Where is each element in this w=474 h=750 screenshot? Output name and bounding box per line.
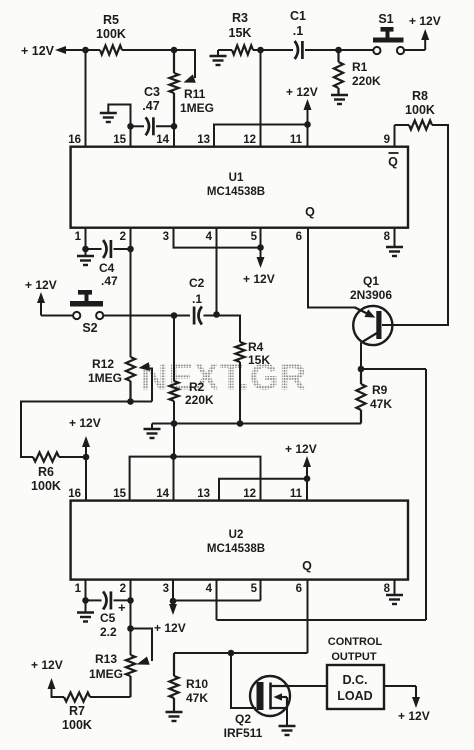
label R6 [38,465,54,479]
wire pin2 U1 down [130,228,132,357]
svg-text:12: 12 [243,488,256,500]
label C2 [189,276,205,290]
wire pin9 U1 [395,125,410,147]
svg-text:14: 14 [156,488,169,500]
wire C3 to pin14 [156,125,174,127]
svg-text:R10: R10 [186,677,208,691]
svg-text:9: 9 [384,134,390,146]
svg-text:R8: R8 [412,89,428,103]
svg-text:11: 11 [290,488,303,500]
pin 4 label U2 bottom [206,583,213,595]
wire pin4 rail to right [217,619,427,621]
+12V label (pin5 U1) [243,272,275,286]
wire R3 to C1 [253,49,261,51]
label R5 value [96,27,126,41]
svg-text:5: 5 [251,583,258,595]
label U1 Qbar [388,153,398,169]
label C3 [144,85,160,99]
pin 12 label U2 top [243,488,256,500]
label OUTPUT [331,651,377,663]
+12V label (R7) [31,658,63,672]
svg-text:S2: S2 [82,321,97,335]
ground wire (pin15) [108,105,130,127]
label R3 value [229,26,252,40]
pin 6 label U2 bottom [296,583,302,595]
svg-text:11: 11 [290,134,303,146]
+12V label (S2) [25,278,57,292]
label R8 value [405,103,435,117]
svg-text:S1: S1 [378,12,393,26]
svg-text:D.C.: D.C. [343,673,368,687]
label R11 [184,87,206,101]
label R4 [248,340,264,354]
wire pin13 U1 [214,125,308,148]
pushbutton S1 [373,27,404,54]
svg-text:15K: 15K [248,353,270,367]
label C4 [99,261,115,275]
svg-text:.47: .47 [101,274,118,288]
pin 13 label U2 top [197,488,210,500]
svg-text:U1: U1 [229,172,244,184]
wire C4 to pin2 [114,248,131,250]
wire pin1 U1 [85,228,87,249]
label R7 value [62,718,92,732]
junction R2 top [171,312,178,319]
ground (pin8 U2) [386,595,403,604]
label C4 value [101,274,118,288]
label R1 value [352,74,381,88]
svg-text:6: 6 [296,583,302,595]
svg-text:+ 12V: + 12V [154,621,186,635]
resistor R7 [64,692,90,701]
svg-text:+ 12V: + 12V [409,14,441,28]
op-amp U1 box [71,147,408,228]
label U1 [229,172,244,184]
wire pin8 U2 [394,580,396,595]
svg-text:+ 12V: + 12V [69,416,101,430]
+12V label (pin11 U2) [285,442,317,456]
label R10 [186,677,208,691]
junction pin14/R11 [171,123,178,130]
wire net B (pins 13/11 U2) [219,479,307,501]
pin 14 label U2 top [156,488,169,500]
svg-text:2: 2 [120,583,126,595]
svg-text:12: 12 [243,134,256,146]
svg-text:CONTROL: CONTROL [328,636,383,648]
+12V label (pin11 U1) [286,85,318,99]
svg-text:100K: 100K [31,479,61,493]
svg-text:Q: Q [305,205,315,219]
wire R5 to R11 [122,49,174,51]
svg-text:3: 3 [163,583,169,595]
label Q1 part [350,288,392,302]
svg-text:R1: R1 [352,60,368,74]
junction pin1/C4 [82,246,89,253]
wire pin6 to R10 [174,652,308,654]
D.C. LOAD box [327,665,384,709]
svg-text:+ 12V: + 12V [31,658,63,672]
wire pin11 U2 [306,479,308,501]
pin 11 label U1 top [290,134,303,146]
svg-text:R4: R4 [248,340,264,354]
label R9 value [370,397,392,411]
junction net B +12V [304,475,311,482]
junction pin15/C3 [127,123,134,130]
svg-text:15K: 15K [229,26,252,40]
wire pin3 U2 [172,580,174,601]
+12V label (load) [398,709,430,723]
ground (R10) [166,712,183,721]
pin 16 label U1 top [68,134,81,146]
label R2 value [185,393,214,407]
wire right rail down [425,369,427,620]
wire pin1 U2 [85,580,87,601]
svg-text:+ 12V: + 12V [243,272,275,286]
label U1 part [207,186,265,198]
svg-text:MC14538B: MC14538B [207,186,265,198]
label R5 [103,13,119,27]
label R11 value [180,101,214,115]
wire R8 to Q1 base [382,125,448,325]
label R3 [232,11,248,25]
svg-text:MC14538B: MC14538B [207,543,265,555]
pin 16 label U2 top [68,488,81,500]
svg-text:4: 4 [206,231,213,243]
junction +12V pin11 [304,121,311,128]
label Q2 [235,712,251,726]
ground (pin8 U1) [386,247,403,256]
wire pin14 U1 [173,126,175,147]
wire S1 to +12V arrow [404,39,425,50]
svg-text:+ 12V: + 12V [25,278,57,292]
wire pin1 to C4 [86,248,102,250]
+12V arrow (R7) [48,678,56,689]
svg-text:R7: R7 [69,704,85,718]
wire pin3 to pin5 U2 [173,600,261,602]
wire pin1 to C5 [86,599,102,601]
pin 14 label U1 top [156,134,169,146]
wire R13 to R7 [90,696,131,698]
svg-text:R9: R9 [372,383,388,397]
resistor R3 [232,45,253,54]
+12V label (pin3 U2) [154,621,186,635]
svg-text:15: 15 [113,488,126,500]
+12V arrow down (load) [412,697,420,708]
capacitor C1 [295,41,303,59]
wire Q2 gate [231,653,256,708]
svg-text:C4: C4 [99,261,115,275]
wire pin16 U2 [85,457,87,501]
ground (R1) [331,95,348,104]
resistor R10 [169,653,178,712]
svg-text:13: 13 [197,488,210,500]
wire Q1 to right rail [361,368,426,370]
svg-text:R6: R6 [38,465,54,479]
junction pin3 U2 [170,598,177,605]
wire pin16 U1 [85,50,87,147]
svg-text:8: 8 [384,583,391,595]
svg-text:100K: 100K [96,27,126,41]
wire pin12 U1 [260,50,262,147]
junction R6/+12V/pin16 [83,454,90,461]
wire R6 to pin16 U2 [59,456,86,458]
+12V arrow (S1 right) [421,29,429,40]
junction net A / R2 line [170,453,177,460]
wire pin11 U1 [307,125,309,148]
wire pin4 U2 down [216,580,218,620]
label C1 value [293,24,303,38]
+12V arrow (pin11 U2) [303,456,311,479]
label S2 [82,321,97,335]
pin 15 label U1 top [113,134,126,146]
label C5 plus [118,600,126,615]
junction R13 wiper tap [127,625,134,632]
label C3 value [142,99,159,113]
svg-text:15: 15 [113,134,126,146]
svg-text:Q: Q [388,155,398,169]
svg-text:.1: .1 [192,292,202,306]
label S1 [378,12,393,26]
capacitor C3 wire left [131,125,145,127]
potentiometer R11 body [169,50,178,126]
label C5 value [100,625,117,639]
label C5 [100,611,116,625]
wire load to +12V [384,686,416,698]
pin 2 label U2 bottom [120,583,126,595]
pin 2 label U1 bottom [120,231,126,243]
svg-text:+ 12V: + 12V [285,442,317,456]
svg-text:+ 12V: + 12V [21,44,55,58]
svg-text:1MEG: 1MEG [89,667,123,681]
wire R7 to +12V [52,688,65,697]
svg-text:C3: C3 [144,85,160,99]
ground (pin1 U2) [77,600,94,621]
ground rail wire [152,423,361,425]
svg-text:3: 3 [163,231,169,243]
label LOAD [337,689,372,703]
junction R3/C1/pin12 [257,47,264,54]
+12V arrow (top left) [55,46,100,54]
svg-text:2N3906: 2N3906 [350,288,392,302]
+12V arrow down (pin5 U1) [257,248,265,268]
svg-text:100K: 100K [62,718,92,732]
wire Q2 drain to load [290,685,327,687]
wire Q1 collector [360,343,362,369]
label R7 [69,704,85,718]
svg-text:Q2: Q2 [235,712,251,726]
pin 4 label U1 bottom [206,231,213,243]
R11 wiper wire [174,50,196,83]
svg-text:4: 4 [206,583,213,595]
capacitor C2 [194,307,202,325]
pin 1 label U1 bottom [75,231,82,243]
wire C1 left [261,49,294,51]
+12V supply label (top left) [21,44,55,58]
wire net A (pins 15/14/12 U2) [130,457,261,501]
svg-text:1: 1 [75,231,82,243]
wire pin2 U2 down [130,580,132,655]
+12V arrow (R6) [82,436,90,457]
+12V arrow (pin11 U1) [304,99,312,125]
label R13 value [89,667,123,681]
ground (pin1 U1) [77,249,94,265]
mosfet Q2 [250,676,290,716]
transistor Q1 [353,306,392,345]
pin 11 label U2 top [290,488,303,500]
resistor R1 [334,50,343,95]
label R9 [372,383,388,397]
junction R5/R11 [171,47,178,54]
svg-text:OUTPUT: OUTPUT [331,651,377,663]
label R12 [92,357,114,371]
label R2 [189,380,205,394]
pin 3 label U2 bottom [163,583,169,595]
svg-text:C2: C2 [189,276,205,290]
potentiometer R12 body [126,357,135,402]
pin 8 label U1 bottom [384,231,391,243]
potentiometer R13 body [126,655,135,697]
capacitor C4 [103,240,111,258]
R12 wiper wire [139,362,153,401]
svg-text:R11: R11 [184,87,206,101]
svg-text:R13: R13 [95,652,117,666]
svg-text:IRF511: IRF511 [224,726,263,740]
label R4 value [248,353,270,367]
op-amp U2 box [71,501,408,580]
label R10 value [186,691,208,705]
svg-text:220K: 220K [352,74,381,88]
label Q2 part [224,726,263,740]
junction Q1/R9 [358,366,365,373]
label CONTROL [328,636,383,648]
wire pin15 U1 [130,126,132,147]
svg-text:14: 14 [156,134,169,146]
junction R2/ground rail [171,420,178,427]
label R8 [412,89,428,103]
junction C1/R1/S1 [335,47,342,54]
svg-text:+ 12V: + 12V [286,85,318,99]
svg-text:C1: C1 [290,9,306,23]
svg-text:16: 16 [68,488,81,500]
label U2 Q [302,559,312,573]
wire pin5 U2 [260,580,262,601]
svg-text:R3: R3 [232,11,248,25]
wire C5 to pin2 [114,599,131,601]
pin 13 label U1 top [197,134,210,146]
pin 3 label U1 bottom [163,231,169,243]
svg-text:Q: Q [302,559,312,573]
label Q1 [363,274,379,288]
wire to S1 [339,49,374,51]
svg-text:6: 6 [296,231,302,243]
ground (R3 left) [210,50,233,65]
wire C2 to pin4 junction [204,315,217,317]
pin 12 label U1 top [243,134,256,146]
svg-text:R2: R2 [189,380,205,394]
wire Q2 source to ground [286,708,288,726]
pushbutton S2 [70,290,103,319]
wire pin4 U1 down [216,228,218,315]
svg-text:U2: U2 [229,529,244,541]
ground (Q2) [279,726,296,735]
label C2 value [192,292,202,306]
capacitor C3 [146,117,154,135]
ground (mid rail) [144,424,161,439]
wire pin6 U2 down [307,580,309,653]
svg-text:.1: .1 [293,24,303,38]
+12V label (S1 right) [409,14,441,28]
svg-text:47K: 47K [370,397,392,411]
wire pin8 U1 [394,228,396,247]
wire R2 junction to C2 [174,315,190,317]
pin 15 label U2 top [113,488,126,500]
wire pin14 U2 [173,457,175,501]
svg-text:NEXT.GR: NEXT.GR [141,357,307,398]
resistor R2 [169,316,178,457]
svg-text:+: + [118,600,126,615]
pin 5 label U2 bottom [251,583,258,595]
svg-text:100K: 100K [405,103,435,117]
+12V arrow (S2 left) [37,292,73,316]
svg-text:.47: .47 [142,99,159,113]
resistor R4 [235,342,244,362]
svg-text:R5: R5 [103,13,119,27]
wire pin3 U1 to rail [174,228,261,248]
ground (pin15) [100,113,117,122]
+12V arrow down (pin3 U2) [169,601,177,615]
junction pin5 +12V [257,244,264,251]
+12V label (R6) [69,416,101,430]
svg-text:1MEG: 1MEG [88,371,122,385]
wire C1 to R1 junction [305,49,339,51]
svg-text:16: 16 [68,134,81,146]
capacitor C5 [103,591,111,609]
node A junction (pin16 rail) [82,47,89,54]
label R1 [352,60,368,74]
svg-text:47K: 47K [186,691,208,705]
svg-text:+ 12V: + 12V [398,709,430,723]
wire S2 to R2 junction [103,315,174,317]
wire pin6 U1 to Q1 emitter [308,228,356,308]
svg-text:13: 13 [197,134,210,146]
svg-text:8: 8 [384,231,391,243]
label U1 Q [305,205,315,219]
label U2 part [207,543,265,555]
junction pin4/C2/R4 [213,311,220,318]
junction C5/pin2 [127,597,134,604]
svg-text:2.2: 2.2 [100,625,117,639]
svg-text:220K: 220K [185,393,214,407]
label R6 value [31,479,61,493]
svg-text:C5: C5 [100,611,116,625]
wire pin5 U1 [260,228,262,248]
resistor R5 [100,45,122,54]
label R13 [95,652,117,666]
label D.C. [343,673,368,687]
wire R4 bottom [239,362,241,424]
resistor R9 [356,369,365,424]
svg-text:1: 1 [75,583,82,595]
svg-text:5: 5 [251,231,258,243]
label U2 [229,529,244,541]
pin 8 label U2 bottom [384,583,391,595]
wire to R4 [217,316,241,343]
junction R12/pin2 bottom [127,398,134,405]
pin 1 label U2 bottom [75,583,82,595]
svg-text:R12: R12 [92,357,114,371]
junction R4/ground rail [237,420,244,427]
junction C4/pin2 [127,246,134,253]
